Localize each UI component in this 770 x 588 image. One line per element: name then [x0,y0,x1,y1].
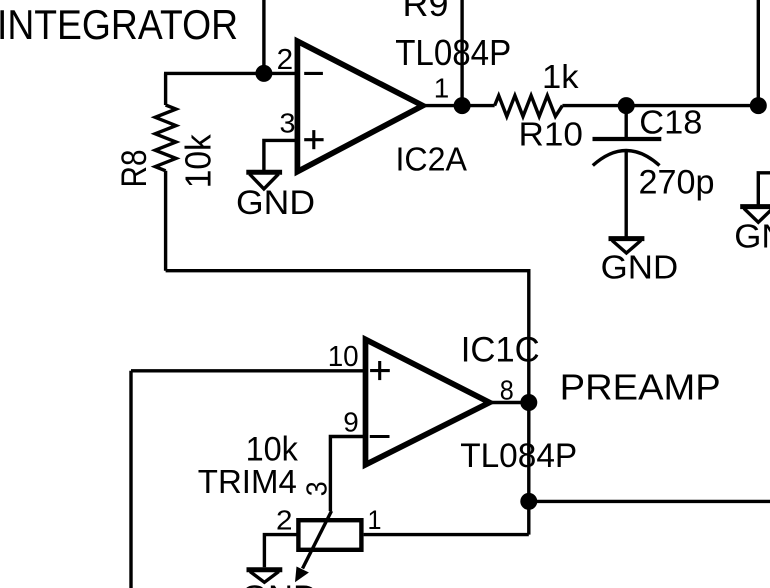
svg-text:TL084P: TL084P [460,437,577,475]
trimmer wiper arrow line [303,511,332,569]
ground symbol at IC2A pin3 [246,170,282,175]
svg-text:10k: 10k [246,431,299,469]
wire right GND stub from edge [758,173,770,205]
op-amp IC1C triangle [366,339,490,464]
node dot right [752,99,766,113]
svg-text:2: 2 [276,505,293,536]
svg-text:GND: GND [241,580,318,588]
node dot IC1C output [522,396,536,410]
wire left vertical to bottom edge [129,371,132,588]
ground symbol below C18 [609,236,645,241]
svg-text:1k: 1k [542,58,579,95]
wire IC1C output [490,401,529,404]
svg-text:270p: 270p [639,164,715,202]
ground symbol right [740,204,770,209]
svg-text:TRIM4: TRIM4 [198,464,297,501]
svg-text:IC1C: IC1C [461,330,540,369]
svg-text:GND: GND [601,249,679,286]
svg-text:R10: R10 [519,116,584,153]
svg-text:R8: R8 [115,150,154,188]
capacitor C18 bottom lead [625,152,628,237]
node junction dot at inverting input [257,67,271,81]
svg-text:IC2A: IC2A [396,141,468,178]
svg-text:10: 10 [328,341,359,373]
op-amp IC2A minus sign [304,72,323,75]
svg-text:1: 1 [434,73,450,104]
resistor R10 zigzag [495,96,563,117]
wire C18 node to right node [626,104,758,107]
svg-text:10k: 10k [177,133,218,188]
svg-text:GND: GND [236,184,315,222]
op-amp IC1C plus sign [370,369,390,372]
wire R9 left leg (top edge to node 2) [262,0,265,73]
feedback wire R8 bottom to IC1C output [166,271,529,535]
svg-text:INTEGRATOR: INTEGRATOR [0,1,238,48]
svg-text:9: 9 [343,407,359,438]
wire R9 right leg (top edge to output node) [460,0,463,106]
wire pin3 [264,140,298,170]
resistor R8 top lead [164,73,167,105]
wire pin2 horizontal [164,72,297,75]
op-amp IC1C minus sign [370,435,390,438]
svg-text:3: 3 [300,481,332,496]
wire right leg to top edge [757,0,760,106]
capacitor C18 top lead [625,106,628,138]
wire pot pin1 to feedback [364,533,529,536]
resistor R8 bottom lead [164,171,167,271]
svg-text:3: 3 [280,108,296,139]
wire pin10 [131,369,366,372]
svg-text:C18: C18 [639,104,702,141]
node dot preamp out branch [522,495,536,509]
wire R10 to C18 node [562,104,626,107]
node dot output IC2A [455,99,469,113]
wire IC2A output [423,104,462,107]
op-amp IC2A plus sign [304,138,323,141]
resistor R8 zigzag [155,105,176,171]
wire to R10 [462,104,495,107]
node dot C18 [619,99,633,113]
trimmer TRIM4 body [298,520,361,550]
svg-text:TL084P: TL084P [395,32,511,73]
ground symbol pot pin2 [247,567,283,572]
capacitor C18 top plate [593,137,662,141]
op-amp IC2A triangle [297,41,422,171]
wire pin9 [330,437,365,512]
svg-text:1: 1 [368,505,382,535]
wire pot pin2 [264,535,298,568]
wire preamp out to right edge [529,500,770,503]
svg-text:2: 2 [277,43,294,75]
svg-text:PREAMP: PREAMP [560,366,721,407]
svg-text:GND: GND [734,218,770,255]
capacitor C18 curved plate [593,151,660,166]
svg-text:8: 8 [500,375,514,406]
trimmer wiper arrowhead [295,567,309,583]
svg-text:R9: R9 [403,0,449,24]
